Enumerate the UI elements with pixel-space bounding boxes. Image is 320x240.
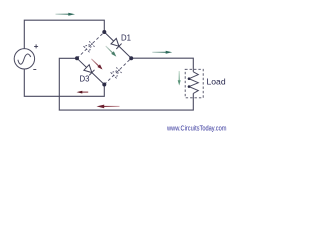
current arrow green inside bridge along D1: [106, 46, 117, 57]
current arrow green down beside load: [178, 71, 181, 86]
svg-text:www.CircuitsToday.com: www.CircuitsToday.com: [166, 123, 226, 132]
AC plus label: [34, 44, 38, 48]
svg-text:D1: D1: [121, 33, 131, 42]
node top junction dot: [102, 30, 106, 34]
wire left node to bottom rail to load bottom: [59, 58, 193, 110]
wire right node to load top: [131, 58, 193, 72]
resistor R load zigzag: [189, 72, 198, 94]
wire AC source bottom to bridge bottom node: [24, 69, 104, 96]
wire top rail from AC source top to bridge top node: [24, 20, 104, 48]
diode D3 (left node to bottom node, conducting): [77, 58, 104, 84]
current arrow green on wire to load: [152, 51, 172, 54]
node bottom junction dot: [102, 83, 106, 87]
resistor tap dot upper: [188, 77, 191, 80]
current arrow green on top rail: [56, 13, 76, 16]
AC minus label: [33, 69, 36, 71]
AC source V1: [14, 49, 34, 69]
current arrow dark red long on bottom rail: [97, 105, 120, 109]
diode D1 (top node to right node, conducting): [104, 32, 131, 58]
load resistor dashed box: [185, 69, 203, 98]
node right junction dot: [129, 56, 133, 60]
svg-text:Load: Load: [207, 77, 226, 87]
diode bridge arm: dashed diode D2 (left node to top node, non-conducting): [77, 32, 104, 58]
svg-text:D3: D3: [80, 75, 90, 84]
node left junction dot: [75, 56, 79, 60]
current arrow dark red short on return wire to AC: [77, 91, 89, 94]
current arrow dark red inside bridge along D3: [91, 59, 102, 70]
diode bridge arm: dashed diode D4 (bottom node to right node, non-conducting): [104, 58, 131, 84]
resistor tap dot lower: [188, 85, 191, 88]
